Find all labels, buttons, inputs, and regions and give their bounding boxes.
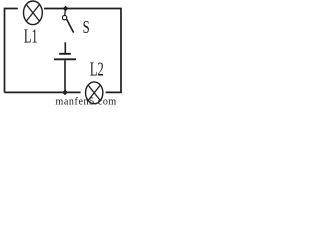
- svg-text:L2: L2: [90, 57, 104, 80]
- lamp L1: [24, 1, 43, 25]
- wire bottom-left segment: [5, 91, 81, 93]
- battery B1: [54, 42, 76, 92]
- wire top-left segment: [5, 9, 18, 93]
- switch S: [62, 15, 73, 32]
- svg-text:L1: L1: [24, 24, 38, 47]
- wire switch stem: [64, 10, 67, 16]
- svg-text:S: S: [83, 18, 90, 38]
- node B (bottom junction dot): [62, 90, 68, 96]
- node A (top junction dot): [63, 6, 69, 12]
- lamp L2: [86, 82, 103, 104]
- wire top-right segment + right side: [44, 9, 121, 93]
